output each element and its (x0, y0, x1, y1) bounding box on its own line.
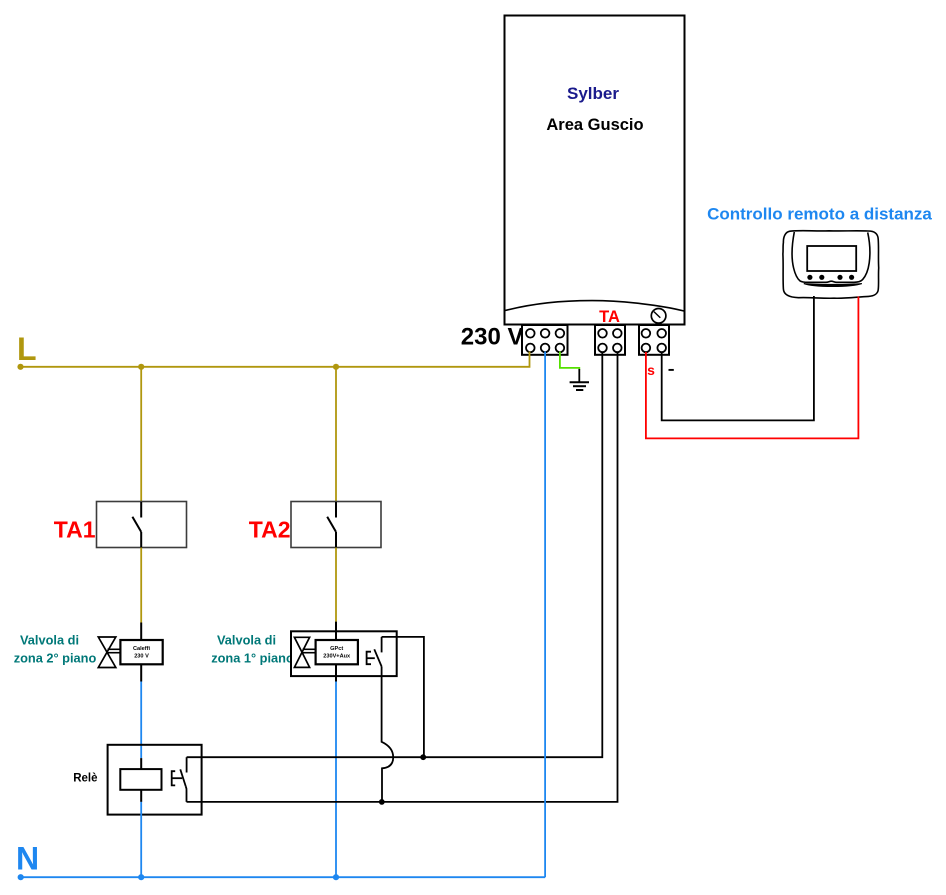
junction dot aux top wire (420, 754, 426, 760)
junction dot aux bottom wire (379, 799, 385, 805)
junction dot N-V2 (333, 874, 339, 880)
svg-text:N: N (16, 841, 39, 877)
wire 230V neutral (blue) (544, 352, 546, 878)
svg-text:230 V: 230 V (134, 653, 149, 659)
relay contact (172, 757, 187, 802)
svg-text:Caleffi: Caleffi (133, 646, 151, 652)
label minus (669, 369, 674, 371)
wire aux switch bottom down with hop (382, 667, 394, 802)
svg-text:L: L (17, 331, 37, 367)
node dot N end (18, 874, 24, 880)
aux switch of V2 (367, 637, 382, 667)
wire earth (green) (560, 352, 579, 370)
svg-text:Relè: Relè (73, 773, 97, 785)
boiler U1 (Sylber Area Guscio) (505, 16, 685, 325)
ground (570, 382, 589, 390)
zone valve V2 (with aux switch) (291, 622, 397, 682)
svg-text:Area Guscio: Area Guscio (546, 116, 643, 134)
svg-text:Controllo remoto a distanza: Controllo remoto a distanza (707, 205, 932, 224)
svg-text:TA1: TA1 (54, 517, 96, 543)
wire aux switch top to node (382, 637, 424, 757)
junction dot N-V1 (138, 874, 144, 880)
wire relay contact bottom to TA terminal (187, 352, 618, 802)
wire TA1 down (olive) (140, 548, 142, 623)
wire remote minus (black) (662, 296, 814, 420)
wire remote s (red) (646, 297, 859, 439)
wire L to TA1 (140, 367, 142, 502)
terminal block remote (639, 325, 669, 355)
wire V2 neutral down (blue) (335, 682, 337, 878)
wire V1 to relay (blue) (140, 682, 142, 759)
svg-text:zona 1° piano: zona 1° piano (211, 650, 294, 665)
relay K1 (108, 745, 202, 815)
svg-text:230 V: 230 V (461, 324, 524, 351)
junction dot L-TA1 (138, 364, 144, 370)
svg-text:230V+Aux: 230V+Aux (323, 653, 351, 659)
junction dot L-TA2 (333, 364, 339, 370)
wire N (blue) (20, 876, 545, 878)
wire L to TA2 (335, 367, 337, 502)
svg-text:zona 2° piano: zona 2° piano (14, 650, 97, 665)
remote control unit (783, 231, 879, 299)
terminal block 230V (522, 325, 568, 355)
svg-text:Sylber: Sylber (567, 84, 619, 103)
svg-text:TA: TA (599, 308, 620, 326)
wire relay below (blue) (140, 802, 142, 877)
wire L phase (olive) (20, 352, 530, 367)
svg-text:TA2: TA2 (249, 517, 291, 543)
terminal block TA (595, 325, 625, 355)
thermostat TA1 (97, 502, 187, 548)
node dot L end (17, 364, 23, 370)
thermostat TA2 (291, 502, 381, 548)
svg-text:s: s (647, 362, 655, 378)
zone valve V1 (98, 623, 162, 682)
boiler panel curve (505, 301, 684, 311)
svg-text:Valvola di: Valvola di (217, 633, 276, 648)
svg-text:GPct: GPct (330, 646, 343, 652)
wire TA2 down (olive) (335, 548, 337, 622)
wire relay contact top to TA terminal (187, 352, 603, 757)
clock symbol (651, 309, 666, 324)
svg-text:Valvola di: Valvola di (20, 633, 79, 648)
